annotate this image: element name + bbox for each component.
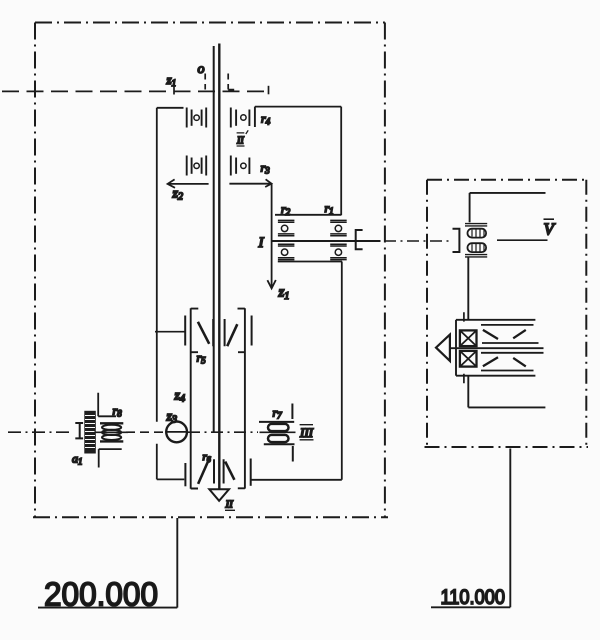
coupling V lower bearing bars [465,255,487,257]
svg-text:z1: z1 [166,72,177,88]
flow line z2 with arrowhead [168,183,209,185]
cone clutch r6 right outer plate [250,459,252,486]
cone clutch r6 sleeve bars [214,459,224,483]
branch rail to clutch (from left wall) [155,331,185,333]
casing notch ticks [463,312,465,383]
svg-text:a1: a1 [72,452,83,467]
svg-text:r2: r2 [281,202,291,217]
bearing block upper (crossed square) [460,330,477,346]
svg-text:II: II [225,499,235,511]
right assembly lower column [467,376,469,408]
gearbox housing right wall [340,107,343,480]
svg-text:o: o [198,62,205,77]
final drive inner rail lower [481,370,534,372]
shaft line through gear z3 [166,431,187,433]
tick: end of top axis [268,86,270,95]
gearbox housing top-left rail [157,107,184,109]
shaft line through coupling [94,431,128,433]
yoke over spring coupling r8 [98,393,116,417]
shaft I left end (vertical drop line) [271,184,273,287]
svg-text:V: V [544,220,557,239]
svg-text:r7: r7 [273,406,283,421]
coupling V upper hub (hatched) [468,229,487,238]
right assembly upper column [469,193,471,222]
svg-text:r3: r3 [261,161,271,176]
clutch housing left column [190,308,192,489]
bearing pair upper-left on shaft II [187,108,207,128]
bevel gear strokes lower [483,357,526,366]
bearing pair lower-right on shaft II (gear r3) [231,156,250,176]
cone clutch r6 left cone stroke [198,458,210,484]
svg-text:z1: z1 [278,285,290,303]
axis: shaft I centerline (dash-dot) to right assembly [384,240,452,242]
flow line to z1 (horizontal + corner arrowhead) [229,183,270,185]
coupling V upper bearing bars [465,224,487,226]
ratchet wheel a1 (hatched block) [84,411,96,454]
arrow: output axle (open triangle left) [436,335,450,361]
coupling a1 left bracket (I-shape) [75,423,83,438]
cone clutch r6 left outer plate [184,463,186,486]
clutch housing right column [244,308,246,488]
arrow: z1 arrowhead down [267,280,275,288]
coupling half bracket on shaft I [356,230,363,249]
axle center lines [482,342,539,344]
svg-text:z4: z4 [174,389,185,405]
frame: gearbox assembly 200.000 boundary (dash-dot) [33,23,388,518]
shaft V line [497,239,548,241]
leader line for 110.000 [431,449,510,608]
cone clutch r5 sleeve bars [213,319,224,346]
coupling V bracket [453,229,460,252]
coupling V lower hub (hatched) [468,243,487,252]
final drive inner rail upper [481,324,534,326]
bearing gear r2 on shaft I [278,220,295,259]
right assembly mid column [467,257,469,320]
worm gear r7 shaft ticks [291,404,293,462]
phantom gear o right dashed edge [228,74,235,90]
shaft line through worm r7 [260,431,296,433]
gearbox housing bottom rail [157,478,342,480]
bearing block lower (crossed square) [460,351,477,367]
svg-text:r5: r5 [197,351,207,366]
gearbox housing top-right rail [255,106,341,108]
shaft I horizontal line [272,240,381,242]
spring coupling r8 top flange [100,422,123,424]
worm gear r7 upper thread [268,424,289,431]
bearing gear r1 on shaft I [330,220,347,259]
gear z3 (circle) [166,422,187,443]
gear case rail below shaft I [278,261,342,263]
axis: top input axis (dashed centerline) [2,90,269,92]
leader line for 200.000 [38,518,177,608]
worm gear r7 bottom rail [264,443,295,445]
svg-text:II: II [236,136,244,147]
svg-text:z2: z2 [172,187,183,203]
gear case rail above shaft I [275,214,341,216]
svg-text:r6: r6 [203,451,211,464]
final drive casing bottom [456,375,535,377]
final drive casing top [456,319,535,321]
bevel gear strokes upper [483,330,526,339]
spring coupling r8 coils [102,425,121,440]
svg-text:III: III [299,425,314,440]
svg-text:200.000: 200.000 [44,575,158,612]
frame: assembly 110.000 boundary (dash-dot) [425,180,589,447]
cone clutch r6 right cone stroke [225,462,234,480]
cone clutch r5 left cone stroke [198,322,209,344]
axis: lower axis III (dash-dot centerline) [8,431,73,433]
svg-text:I: I [258,235,265,251]
arrow: shaft II output arrowhead [209,489,229,501]
right assembly top rail [470,192,546,194]
node z1 tick on top axis [173,86,175,94]
bearing pair lower-left on shaft II [187,156,207,176]
final drive casing left wall [455,320,457,376]
svg-text:r8: r8 [113,404,123,419]
right assembly bottom rail [468,406,545,408]
cone clutch r5 right cone stroke [227,324,237,346]
svg-text:110.000: 110.000 [441,586,506,609]
worm gear r7 top rail [259,421,294,423]
phantom gear o left dashed edge [204,74,206,90]
svg-text:r1: r1 [325,201,334,216]
cone clutch r5 right outer plate [251,316,253,346]
bearing pair upper-right on shaft II (gear r4) [231,107,255,128]
svg-text:r4: r4 [261,112,271,127]
clutch housing ticks [191,309,245,489]
spring coupling r8 bottom flange [100,440,123,442]
gearbox housing left wall [156,108,158,480]
worm gear r7 lower thread [268,435,289,442]
cone clutch r5 left outer plate [184,316,186,346]
shaft II (vertical, double line) [213,46,215,433]
